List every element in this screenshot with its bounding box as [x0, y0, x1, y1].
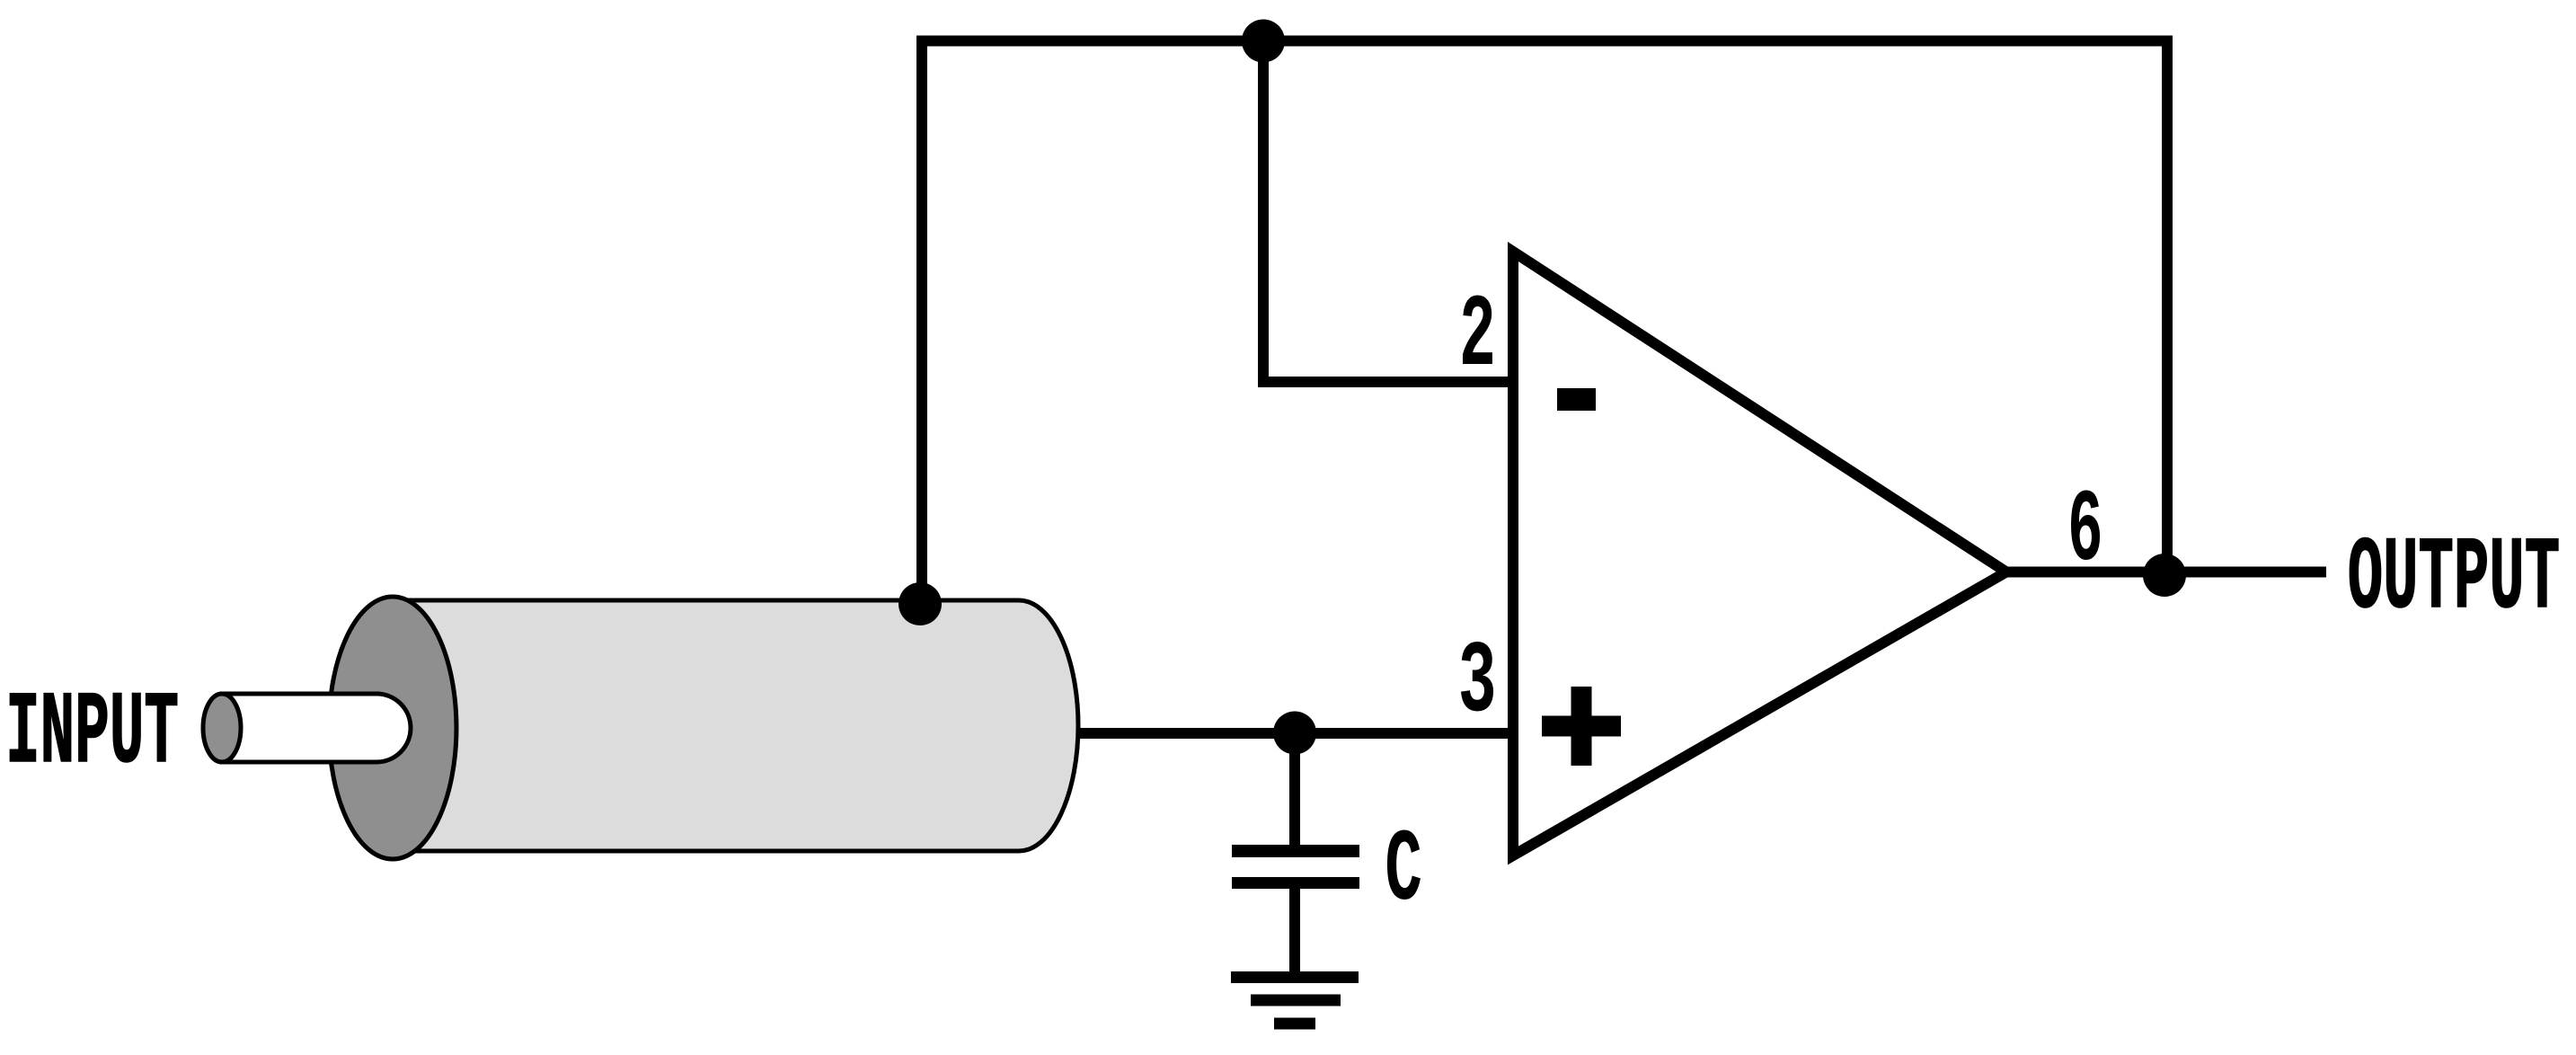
svg-text:6: 6 [2067, 474, 2103, 590]
svg-text:2: 2 [1459, 280, 1496, 396]
svg-text:3: 3 [1458, 625, 1497, 740]
svg-text:OUTPUT: OUTPUT [2348, 522, 2560, 638]
svg-text:INPUT: INPUT [5, 676, 179, 792]
svg-text:C: C [1385, 814, 1422, 930]
